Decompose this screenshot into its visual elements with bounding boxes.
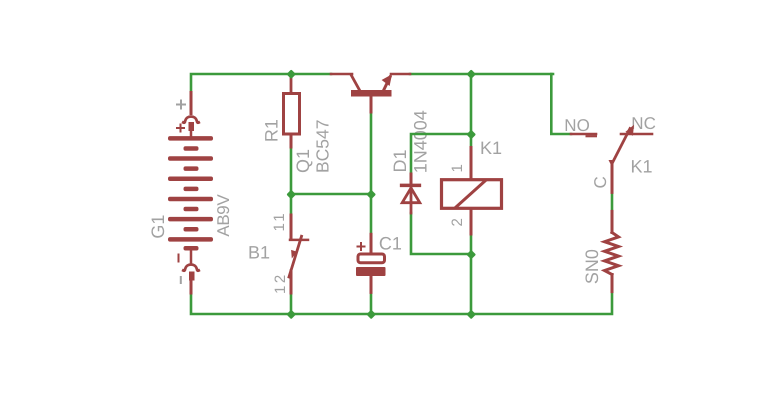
diode D1 xyxy=(402,174,420,213)
svg-text:Q1: Q1 xyxy=(293,149,313,173)
capacitor C1 xyxy=(356,234,386,292)
wire D1 top xyxy=(411,134,471,174)
battery minus mark gray xyxy=(180,277,182,283)
svg-text:AB9V: AB9V xyxy=(214,194,233,237)
svg-text:NC: NC xyxy=(631,114,656,133)
switch K1 lever xyxy=(609,125,635,193)
junction node top relay xyxy=(466,69,476,79)
junction node rail B1 xyxy=(286,310,296,320)
junction node mid right xyxy=(366,190,376,200)
transistor Q1 xyxy=(331,74,410,112)
svg-text:K1: K1 xyxy=(480,138,502,158)
wire D1 bottom xyxy=(411,213,471,254)
relay coil K1 xyxy=(442,148,502,235)
svg-text:1: 1 xyxy=(449,164,466,172)
svg-text:2: 2 xyxy=(449,218,466,226)
svg-text:SN0: SN0 xyxy=(582,249,602,284)
switch B1 xyxy=(289,215,308,293)
svg-text:11: 11 xyxy=(271,211,288,232)
svg-text:NO: NO xyxy=(564,116,590,135)
wire NO branch xyxy=(551,74,571,134)
junction node mid left xyxy=(286,190,296,200)
wire R1 bottom to mid rail xyxy=(290,147,293,194)
wire B1 bottom xyxy=(290,293,293,314)
junction node top R1 xyxy=(286,69,296,79)
wire bottom rail xyxy=(191,292,612,314)
contact NC lead xyxy=(621,133,652,136)
wire Q1 base xyxy=(370,112,373,194)
wire top rail left xyxy=(191,74,331,93)
junction node relay top xyxy=(466,130,476,140)
svg-text:C: C xyxy=(591,176,610,188)
wire switch C net xyxy=(611,192,614,211)
svg-text:R1: R1 xyxy=(261,119,281,142)
wire relay pin2 to rail xyxy=(470,234,473,314)
wire top rail right xyxy=(410,73,553,76)
svg-text:D1: D1 xyxy=(390,149,410,172)
svg-text:B1: B1 xyxy=(248,243,270,263)
svg-text:1N4004: 1N4004 xyxy=(411,110,431,173)
resistor R1 xyxy=(284,75,300,147)
resistor SN0 xyxy=(605,211,619,291)
wire C1 bottom xyxy=(370,292,373,314)
svg-text:BC547: BC547 xyxy=(313,119,333,173)
svg-text:G1: G1 xyxy=(148,215,168,239)
wire mid rail xyxy=(291,193,371,196)
svg-text:C1: C1 xyxy=(379,234,402,254)
wire B1 top xyxy=(290,194,293,215)
junction node relay bottom xyxy=(466,250,476,260)
contact NO lead xyxy=(571,133,596,136)
battery plus mark gray xyxy=(177,101,185,109)
svg-text:12: 12 xyxy=(272,272,289,294)
junction node rail C1 xyxy=(366,310,376,320)
battery G1 xyxy=(168,93,213,294)
svg-text:K1: K1 xyxy=(631,157,653,177)
wire C1 top xyxy=(370,194,373,234)
junction node rail relay xyxy=(466,310,476,320)
wire relay feed xyxy=(470,74,473,148)
